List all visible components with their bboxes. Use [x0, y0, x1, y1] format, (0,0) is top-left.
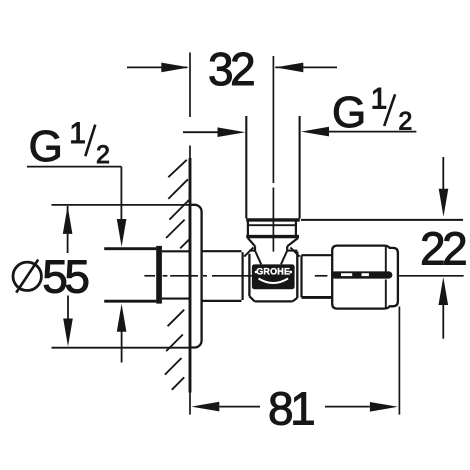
label G 1/2 (outlet thread) — [332, 83, 412, 138]
valve body tube between flange and center block — [202, 251, 243, 301]
svg-text:G: G — [332, 88, 366, 137]
svg-text:55: 55 — [42, 251, 88, 303]
wall hatching — [165, 160, 189, 390]
dimension line across outlet pipe thread — [183, 127, 416, 137]
funnel cone into body — [255, 251, 287, 265]
label G 1/2 (inlet thread) with leader — [27, 117, 126, 363]
svg-text:2: 2 — [398, 108, 412, 136]
inlet pipe section inside wall — [162, 251, 190, 298]
svg-text:1: 1 — [371, 83, 388, 116]
vertical outlet pipe (G 1/2) — [246, 116, 299, 219]
handle grip slot — [331, 271, 393, 278]
dimension 81 (wall to handle front) — [190, 307, 399, 435]
svg-text:GROHE: GROHE — [256, 266, 290, 276]
valve center block — [244, 247, 299, 301]
svg-text:32: 32 — [208, 43, 254, 95]
dimension diameter 55 (flange) — [13, 205, 190, 348]
svg-text:81: 81 — [268, 383, 314, 435]
inlet tail pipe (G 1/2 thread into wall) — [104, 249, 156, 302]
valve stem between body and handle — [302, 255, 333, 297]
vertical centerline of outlet pipe — [272, 56, 274, 252]
compression nut on outlet — [246, 220, 300, 238]
svg-text:2: 2 — [96, 141, 110, 169]
svg-text:1: 1 — [69, 117, 86, 150]
wall flange (escutcheon, diameter 55) — [189, 205, 202, 348]
body top shoulders — [249, 250, 297, 252]
dimension 32 (wall to outlet axis) — [127, 43, 337, 117]
inlet pipe collar — [156, 246, 162, 304]
svg-text:22: 22 — [420, 223, 466, 275]
handle knob — [332, 246, 398, 309]
taper from nut to neck — [248, 238, 298, 251]
dimension 22 (nut top to axis) — [301, 157, 466, 339]
wall face line — [189, 146, 191, 393]
horizontal centerline of valve axis — [144, 275, 463, 277]
GROHE logo plate — [252, 264, 295, 289]
svg-text:G: G — [29, 122, 63, 171]
